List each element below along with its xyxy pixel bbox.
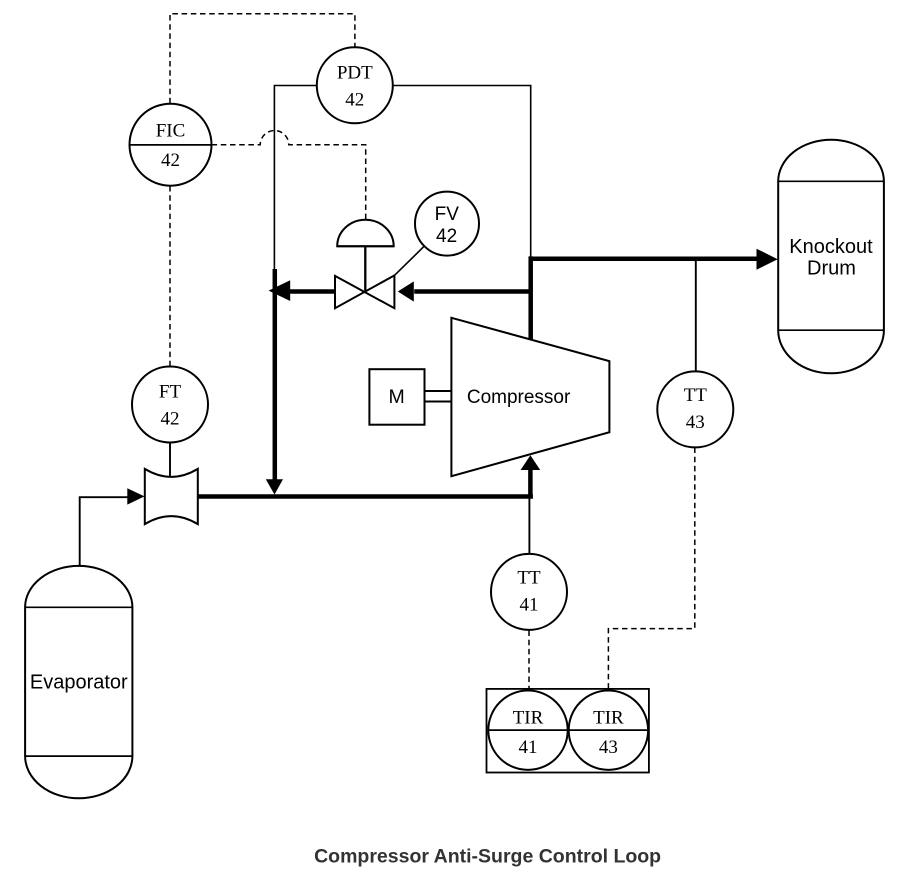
pipe: compressor inlet riser (thick) bbox=[528, 470, 533, 499]
arrowhead: into valve right side bbox=[398, 281, 414, 301]
instrument FV 42 balloon bbox=[415, 192, 479, 256]
instrument TT 41 bbox=[491, 554, 567, 630]
svg-text:42: 42 bbox=[161, 150, 180, 171]
svg-text:Compressor Anti-Surge Control: Compressor Anti-Surge Control Loop bbox=[314, 846, 661, 868]
svg-text:43: 43 bbox=[686, 412, 705, 433]
pipe: recycle horizontal from valve to vertical (thick) bbox=[290, 289, 335, 294]
instrument TT 43 bbox=[657, 371, 733, 447]
recorder box TIR 41 / TIR 43 bbox=[487, 689, 649, 773]
svg-text:Knockout: Knockout bbox=[789, 236, 873, 258]
arrowhead into flow element bbox=[127, 488, 144, 504]
svg-text:42: 42 bbox=[436, 226, 457, 247]
svg-text:Compressor: Compressor bbox=[467, 387, 571, 408]
vessel: Knockout Drum bbox=[778, 140, 884, 374]
svg-text:43: 43 bbox=[599, 737, 618, 758]
TIR circles mid line bbox=[488, 729, 648, 731]
arrowhead: into knockout drum bbox=[757, 249, 778, 270]
motor shaft (double line) bbox=[425, 391, 452, 402]
control valve FV body (bowtie) bbox=[335, 275, 394, 308]
flow element (venturi) FE bbox=[145, 469, 198, 524]
svg-text:FV: FV bbox=[435, 204, 460, 225]
pipe: recycle horizontal from discharge to valve (thick) bbox=[414, 289, 531, 294]
arrowhead: recycle onto vertical line bbox=[269, 280, 291, 301]
wire: PDT impulse line U-shape (left vertical, top horizontal taps, right vertical) bbox=[274, 86, 530, 270]
compressor body bbox=[451, 318, 609, 476]
pipe: compressor discharge riser (thick) bbox=[528, 256, 533, 340]
pipe: recycle vertical (thick) bbox=[273, 269, 278, 480]
svg-text:FT: FT bbox=[159, 381, 182, 402]
signal: dashed TT43 to TIR43 bbox=[608, 448, 694, 690]
svg-text:42: 42 bbox=[345, 90, 364, 111]
wire: TT41 riser from main line bbox=[528, 498, 530, 554]
instrument TIR 41 bbox=[488, 691, 567, 770]
motor M box bbox=[369, 369, 424, 425]
signal: dashed FIC to PDT top rail bbox=[170, 14, 355, 104]
svg-text:Evaporator: Evaporator bbox=[30, 672, 128, 694]
svg-text:TT: TT bbox=[517, 568, 541, 589]
valve stem bbox=[364, 246, 366, 291]
svg-text:42: 42 bbox=[161, 408, 180, 429]
signal: dashed TT41 to TIR41 bbox=[528, 631, 530, 689]
pipe: discharge line to knockout drum (thick) bbox=[529, 256, 758, 261]
arrowhead: recycle down into main line bbox=[266, 479, 283, 494]
signal: dashed FIC to FV actuator with hop over recycle line bbox=[212, 131, 366, 220]
signal: dashed FIC down to FT bbox=[169, 186, 171, 366]
valve actuator dome bbox=[337, 220, 394, 247]
svg-text:M: M bbox=[388, 386, 404, 408]
instrument TIR 43 bbox=[569, 691, 648, 770]
vessel: Evaporator bbox=[25, 566, 132, 798]
svg-text:PDT: PDT bbox=[337, 63, 373, 84]
title caption bbox=[314, 846, 661, 868]
svg-text:TIR: TIR bbox=[593, 707, 624, 728]
instrument FIC 42 bbox=[130, 104, 212, 186]
leader line from FV42 balloon to valve bbox=[394, 247, 424, 276]
instrument PDT 42 bbox=[317, 47, 393, 123]
svg-text:TIR: TIR bbox=[513, 707, 544, 728]
wire: FT42 stem to flow element bbox=[169, 443, 171, 478]
wire: TT43 riser from discharge line bbox=[695, 260, 697, 372]
pipe: main suction line (thick) bbox=[198, 494, 533, 499]
arrowhead: into compressor inlet bbox=[521, 455, 541, 470]
svg-text:41: 41 bbox=[519, 737, 538, 758]
svg-text:41: 41 bbox=[520, 595, 539, 616]
svg-text:FIC: FIC bbox=[156, 121, 186, 142]
wire: evaporator outlet line to flow element bbox=[80, 497, 129, 566]
svg-text:Drum: Drum bbox=[807, 257, 856, 279]
svg-text:TT: TT bbox=[684, 385, 708, 406]
instrument FT 42 bbox=[132, 367, 208, 443]
